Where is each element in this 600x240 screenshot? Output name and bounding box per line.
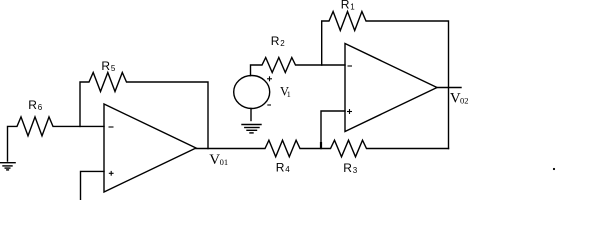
svg-text:R: R <box>101 59 110 73</box>
svg-text:02: 02 <box>460 96 469 106</box>
svg-text:4: 4 <box>285 165 290 174</box>
svg-text:6: 6 <box>38 103 43 112</box>
svg-text:5: 5 <box>111 64 116 73</box>
svg-text:1: 1 <box>350 3 355 12</box>
svg-text:R: R <box>343 161 352 175</box>
svg-text:3: 3 <box>353 166 358 175</box>
svg-text:01: 01 <box>220 157 229 167</box>
svg-text:R: R <box>341 0 350 12</box>
svg-text:R: R <box>276 160 285 174</box>
svg-text:R: R <box>28 98 37 112</box>
svg-text:2: 2 <box>280 39 285 48</box>
svg-text:1: 1 <box>287 90 291 99</box>
svg-text:R: R <box>271 34 280 48</box>
